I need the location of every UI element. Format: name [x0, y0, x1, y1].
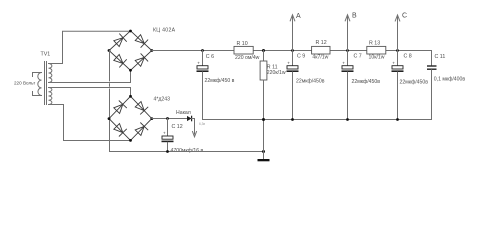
label C 6	[206, 54, 214, 60]
capacitor C11	[427, 51, 437, 120]
node ground rail / R11 junction	[262, 150, 265, 153]
capacitor C9	[287, 51, 299, 120]
wire primary bottom lead	[33, 92, 42, 96]
resistor R12	[312, 46, 330, 54]
node bridge1 top vertex	[129, 30, 132, 33]
svg-text:0,1 мкф/400в: 0,1 мкф/400в	[434, 76, 466, 82]
ground	[258, 152, 270, 162]
svg-text:C 9: C 9	[297, 54, 305, 60]
svg-text:22мкф/450в: 22мкф/450в	[352, 79, 381, 85]
label C 8	[404, 53, 412, 59]
label C 11	[435, 54, 446, 60]
wire secondary2 bottom to bridge2 AC bottom	[49, 105, 131, 141]
capacitor C12	[162, 119, 174, 152]
diode VD5 (bridge2 left-top)	[114, 101, 127, 114]
bridge rectifier U2 4*д243 diamond	[109, 96, 152, 140]
svg-text:A: A	[296, 13, 301, 20]
label 220 Вольт	[14, 81, 36, 86]
node C9 rail junction	[291, 49, 294, 52]
label 22мкф/450в (C9)	[296, 79, 325, 85]
label 22мкф/450в (C7)	[352, 79, 381, 85]
label C	[402, 13, 407, 20]
node bridge2 top vertex	[129, 95, 132, 98]
label small note	[199, 122, 205, 126]
node bridge2 left vertex	[108, 117, 111, 120]
resistor R10	[234, 46, 253, 54]
svg-text:+: +	[197, 60, 200, 65]
node bridge1 left vertex	[108, 49, 111, 52]
node C8 mid-rail junction	[396, 118, 399, 121]
label R 11	[267, 65, 278, 71]
transformer secondary winding 1	[49, 64, 52, 83]
node C6 rail junction	[201, 49, 204, 52]
label C 9	[297, 54, 305, 60]
svg-text:4*д243: 4*д243	[154, 97, 171, 103]
wire heater output arrow	[192, 119, 197, 137]
label 220к/1w	[267, 70, 286, 76]
transformer TV1 primary winding	[38, 73, 42, 96]
resistor R13	[367, 46, 386, 54]
svg-text:10к/1w: 10к/1w	[369, 54, 385, 60]
capacitor C6	[197, 51, 209, 120]
wire secondary1 bottom tap to bridge1 AC bottom	[49, 70, 131, 82]
label 4*д243	[154, 97, 171, 103]
diode VD4 (bridge1 bottom-right)	[135, 53, 148, 66]
node B arrow	[345, 15, 350, 51]
label 10к/1w	[369, 54, 385, 60]
node bridge2 bottom vertex	[129, 139, 132, 142]
wire ground rail	[110, 151, 264, 153]
node C9 mid-rail junction	[291, 118, 294, 121]
svg-text:220 Вольт: 220 Вольт	[14, 81, 36, 86]
label B	[352, 13, 357, 20]
wire bridge1 minus down to ground rail (crosses taps)	[109, 51, 111, 152]
wire main B+ rail	[152, 50, 432, 52]
node C8 rail junction	[396, 49, 399, 52]
svg-text:R 10: R 10	[237, 41, 248, 47]
diode VD1 (bridge1 left-top)	[114, 34, 127, 47]
transformer TV1 label	[41, 52, 51, 58]
node C7 rail junction	[346, 49, 349, 52]
svg-text:КЦ 402А: КЦ 402А	[153, 28, 176, 34]
wire minus mid rail	[203, 119, 432, 121]
svg-text:220к/1w: 220к/1w	[267, 70, 286, 76]
diode VD8 (bridge2 bottom-right)	[135, 123, 148, 136]
svg-text:R 12: R 12	[316, 40, 327, 46]
label R 10	[237, 41, 248, 47]
capacitor C7	[342, 51, 354, 120]
diode VD3 (bridge1 left-bottom)	[114, 55, 127, 68]
node bridge2 right vertex	[150, 117, 153, 120]
svg-text:22мкф/450в: 22мкф/450в	[296, 79, 325, 85]
wire heater output run	[152, 118, 187, 120]
label КЦ 402А	[153, 28, 176, 34]
svg-text:TV1: TV1	[41, 52, 51, 58]
diode VD7 (bridge2 left-bottom)	[114, 124, 127, 137]
svg-text:+: +	[342, 60, 345, 65]
node C arrow	[395, 15, 400, 51]
label 220 ом/4w	[235, 55, 260, 61]
svg-text:Накал: Накал	[176, 110, 191, 116]
wire secondary2 top tap to bridge2 AC top	[49, 88, 131, 97]
label C 12	[172, 124, 183, 130]
label A	[296, 13, 301, 20]
svg-text:C 11: C 11	[435, 54, 446, 60]
diode VD9 heater diode	[187, 116, 192, 122]
svg-text:C 6: C 6	[206, 54, 214, 60]
label Накал	[176, 110, 191, 116]
label C 7	[354, 54, 362, 60]
transformer core	[45, 62, 47, 105]
node A arrow	[290, 15, 295, 51]
transformer secondary winding 2	[49, 88, 52, 105]
wire primary top lead	[33, 73, 42, 77]
svg-text:+: +	[392, 60, 395, 65]
diode VD6 (bridge2 top-right)	[135, 102, 148, 115]
label 4700мкф/16 в	[171, 148, 204, 154]
node bridge1 bottom vertex	[129, 69, 132, 72]
svg-text:C 12: C 12	[172, 124, 183, 130]
svg-text:4к7/1w: 4к7/1w	[312, 54, 328, 60]
svg-text:C 8: C 8	[404, 53, 412, 59]
label 22мкф/450 в	[205, 78, 235, 84]
node C12 top junction	[166, 117, 169, 120]
svg-text:22мкф/450 в: 22мкф/450 в	[205, 78, 235, 84]
node C7 mid-rail junction	[346, 118, 349, 121]
svg-text:C: C	[402, 13, 407, 20]
label 0,1 мкф/400в	[434, 76, 466, 82]
svg-text:22мкф/450в: 22мкф/450в	[400, 79, 429, 85]
wire secondary1 top to bridge1 AC top	[49, 31, 131, 63]
node mid-rail R11 cross junction	[262, 118, 265, 121]
svg-text:+: +	[287, 60, 290, 65]
svg-text:R 13: R 13	[369, 41, 380, 47]
diode VD2 (bridge1 top-right)	[135, 35, 148, 48]
svg-text:220 ом/4w: 220 ом/4w	[235, 55, 260, 61]
label 22мкф/450в (C8)	[400, 79, 429, 85]
label 4к7/1w	[312, 54, 328, 60]
node C12 bottom junction	[166, 150, 169, 153]
svg-text:B: B	[352, 13, 357, 20]
node R11 rail junction	[262, 49, 265, 52]
node bridge1 right vertex	[150, 49, 153, 52]
svg-text:+: +	[163, 131, 166, 136]
label R 13	[369, 41, 380, 47]
svg-text:6,3в: 6,3в	[199, 122, 205, 126]
label R 12	[316, 40, 327, 46]
capacitor C8	[392, 51, 404, 120]
resistor R11	[260, 51, 267, 152]
svg-text:4700мкф/16 в: 4700мкф/16 в	[171, 148, 204, 154]
bridge rectifier U1 КЦ 402А diamond	[109, 31, 152, 71]
svg-text:C 7: C 7	[354, 54, 362, 60]
